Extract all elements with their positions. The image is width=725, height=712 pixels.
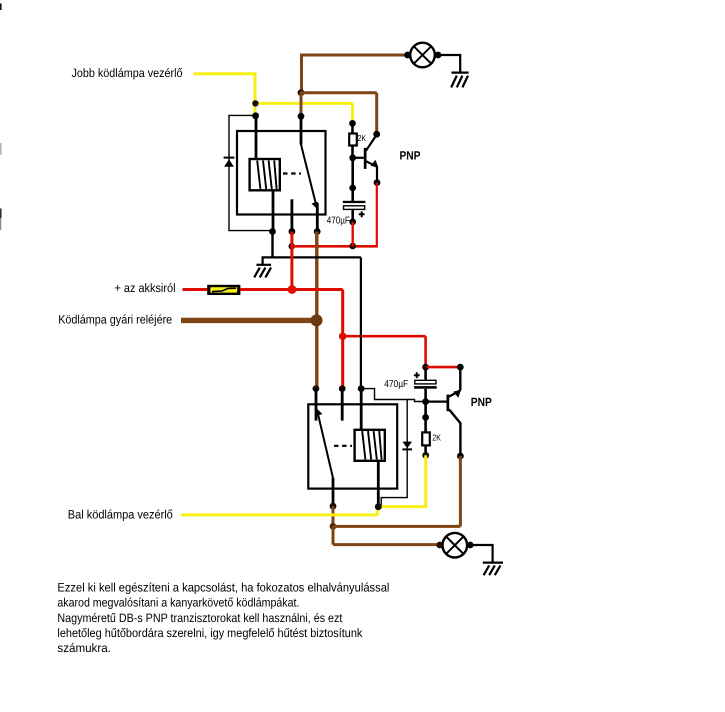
node brown lower junction: [330, 523, 337, 530]
capacitor C1 bottom plate: [344, 206, 365, 210]
relay K1 switch arrow: [312, 202, 318, 210]
resistor R2 2K: [422, 432, 430, 445]
wire black crossbar to lower relay: [273, 256, 361, 258]
relay K1 switch arm: [301, 145, 316, 206]
node Q2 base junction: [422, 398, 429, 405]
capacitor C1 top plate: [343, 201, 366, 203]
wire brown: lamp1 to left then down: [302, 54, 409, 94]
node Q2 collector bottom: [457, 453, 464, 460]
diode D1 triangle: [224, 159, 234, 167]
svg-text:Jobb ködlámpa vezérlő: Jobb ködlámpa vezérlő: [72, 66, 183, 80]
edge artifact mid-left: [0, 143, 2, 155]
wire K2 coil pin 85: [377, 461, 380, 507]
diode D2 wire vertical: [381, 400, 407, 506]
transistor Q2 emitter arrow: [453, 390, 461, 398]
diode D2 loop wire: [361, 389, 425, 402]
wire K2 pin30 stub: [341, 389, 344, 421]
transistor Q1 base bar: [364, 148, 367, 169]
relay K2 dashed link: [334, 445, 352, 447]
capacitor C2 bottom plate: [414, 386, 437, 389]
node red junction mid: [289, 243, 295, 249]
wire black C2 top lead: [424, 367, 427, 380]
relay K2 switch arm: [318, 412, 334, 478]
svg-text:számukra.: számukra.: [57, 641, 111, 655]
lamp L1: [410, 43, 435, 68]
svg-text:PNP: PNP: [471, 395, 492, 409]
node yellow junction: [252, 100, 258, 106]
wire K2 coil pin vertical: [360, 389, 363, 430]
wire brown thick bus: [181, 318, 317, 323]
wire black lamp L2 to ground: [470, 545, 492, 562]
wire Q1 base lead: [353, 157, 364, 159]
wire black C2 to base node: [424, 389, 427, 402]
wire red C1 bottom to bus: [352, 222, 354, 246]
wire black R2 top: [424, 402, 427, 433]
svg-text:Bal ködlámpa vezérlő: Bal ködlámpa vezérlő: [68, 508, 173, 522]
fuse F1 element: [210, 287, 237, 292]
wire brown junction to lamp L2: [333, 526, 440, 544]
wire red fuse to corner: [240, 290, 342, 337]
node red battery junction: [288, 285, 297, 294]
capacitor C2 top plate: [415, 380, 436, 384]
fuse F1 body: [207, 285, 240, 295]
wire black lamp1 to ground: [438, 55, 460, 72]
wire red C2 to emitter branch: [426, 366, 461, 369]
svg-text:Nagyméretű DB-s PNP tranziszto: Nagyméretű DB-s PNP tranzisztorokat kell…: [57, 611, 343, 625]
edge artifact left lower: [0, 218, 1, 230]
resistor R1 2K: [349, 134, 357, 146]
svg-text:lehetőleg hűtőbordára szerelni: lehetőleg hűtőbordára szerelni, igy megf…: [57, 626, 363, 640]
wire red horizontal under relay: [292, 245, 377, 248]
node lamp L1 left: [404, 52, 411, 59]
wire coil pin 85 vertical: [272, 190, 275, 231]
node yellow to R1: [349, 120, 356, 127]
node K2 coil pin top: [358, 385, 365, 392]
wire yellow stub to relay coil pin: [254, 103, 257, 116]
wire red pin87a down: [290, 232, 293, 290]
node K2 switch pin top: [313, 385, 320, 392]
node Q1 base junction: [349, 154, 356, 161]
wire red branch to C2: [343, 336, 426, 367]
node lamp L2 left: [436, 542, 443, 549]
wire pin 87 vertical: [316, 203, 319, 232]
wire switch pin 30 vertical: [300, 116, 303, 144]
node lamp L1 right: [435, 52, 442, 59]
svg-text:Ködlámpa gyári reléjére: Ködlámpa gyári reléjére: [58, 312, 172, 326]
diode D2 cathode bar: [402, 448, 412, 450]
wire Q2 base lead: [426, 401, 447, 403]
relay K2 coil hatch: [362, 431, 381, 460]
relay K1 coil box: [250, 159, 280, 190]
wire brown: junction down across yellow to relay switch pin: [300, 93, 303, 117]
svg-text:470µF: 470µF: [327, 215, 350, 226]
wire black C1 to node: [351, 210, 354, 222]
transistor Q2 base bar: [447, 395, 450, 412]
transistor Q1 collector lead: [366, 135, 377, 151]
wire K2 switch bottom: [332, 478, 335, 506]
wire black pin85 down: [271, 232, 273, 258]
diode D1 loop wire: [229, 115, 273, 230]
node Q1 collector to brown: [373, 131, 380, 138]
wire pin 87a stub: [290, 199, 293, 231]
node Q2 emitter top: [457, 364, 464, 371]
node pin 85 junction: [269, 228, 276, 235]
ground GND3: [483, 563, 503, 576]
wire Q2 emitter vertical: [459, 367, 461, 390]
node red at C1 branch: [349, 243, 356, 250]
wire black node to R1: [351, 123, 354, 133]
node above C1: [349, 185, 356, 192]
edge artifact left: [0, 209, 2, 219]
wire black base node down to C1: [351, 158, 354, 201]
transistor Q1 emitter arrow: [371, 160, 379, 168]
wire K2 switch pin stub: [315, 389, 318, 421]
svg-text:PNP: PNP: [400, 149, 421, 163]
node junction brown top: [298, 89, 305, 96]
wire brown main vertical: [315, 232, 318, 389]
wire brown junction to Q2 collector: [333, 456, 460, 526]
wire yellow from label: [194, 72, 353, 123]
wire yellow lower: [181, 455, 426, 515]
relay K1 coil hatch: [257, 161, 276, 190]
svg-text:2K: 2K: [358, 133, 367, 143]
node Q1 emitter junction: [374, 179, 381, 186]
node K2 coil bottom junction: [375, 503, 382, 510]
fuse F1 link: [212, 288, 236, 291]
diode D2 triangle: [402, 442, 412, 449]
node coil pin 86: [252, 112, 259, 119]
node C1 bottom: [349, 219, 356, 226]
node R2 bottom yellow junction: [422, 452, 429, 459]
node pin 87 junction: [314, 228, 321, 235]
node pin 87a junction: [289, 228, 296, 235]
wire red down to lower relay pin: [341, 336, 344, 388]
lamp L2: [443, 533, 468, 558]
node K2 pin30 top: [339, 385, 346, 392]
node junction brown/black switch pin: [298, 113, 305, 120]
wire black R2 bottom: [424, 445, 427, 455]
svg-text:Ezzel ki kell egészíteni a kap: Ezzel ki kell egészíteni a kapcsolást, h…: [57, 581, 389, 595]
svg-text:akarod megvalósítani a kanyark: akarod megvalósítani a kanyarkövető ködl…: [57, 596, 299, 610]
node red corner junction: [339, 333, 347, 341]
wire brown switch to junction: [332, 506, 335, 526]
ground GND1: [451, 73, 468, 88]
wire black R1 to base node: [351, 146, 354, 158]
edge artifact top-left: [0, 4, 2, 11]
label C2 plus: [414, 372, 420, 378]
node lamp L2 right: [467, 542, 474, 549]
node C2 top: [422, 364, 429, 371]
relay K2 switch arrow: [316, 408, 323, 416]
wire coil pin 86 vertical: [255, 116, 258, 159]
wire black long vertical to lower relay coil: [360, 257, 362, 388]
relay K2 box: [308, 404, 397, 488]
svg-text:2K: 2K: [432, 433, 441, 443]
transistor Q2 emitter lead: [449, 390, 460, 396]
node above R2: [422, 414, 429, 421]
diode D1 cathode bar: [224, 157, 235, 159]
ground GND2: [254, 265, 271, 278]
node K2 switch bottom junction: [330, 503, 337, 510]
relay K2 coil box: [355, 430, 385, 461]
transistor Q1 emitter lead: [366, 161, 377, 182]
wire red label to fuse: [183, 288, 209, 291]
wire red up to Q1 emitter: [376, 183, 378, 248]
wire brown: junction right then down to Q1 collector: [300, 93, 377, 134]
relay K1 dashed link: [283, 172, 301, 174]
node brown big junction: [311, 314, 323, 326]
svg-text:+ az akksiról: + az akksiról: [115, 281, 176, 295]
label C1 plus: [359, 211, 365, 217]
transistor Q2 collector lead: [449, 409, 460, 456]
svg-text:470µF: 470µF: [384, 379, 408, 390]
wire black to ground stub: [263, 257, 274, 264]
relay K1 box: [237, 131, 326, 215]
